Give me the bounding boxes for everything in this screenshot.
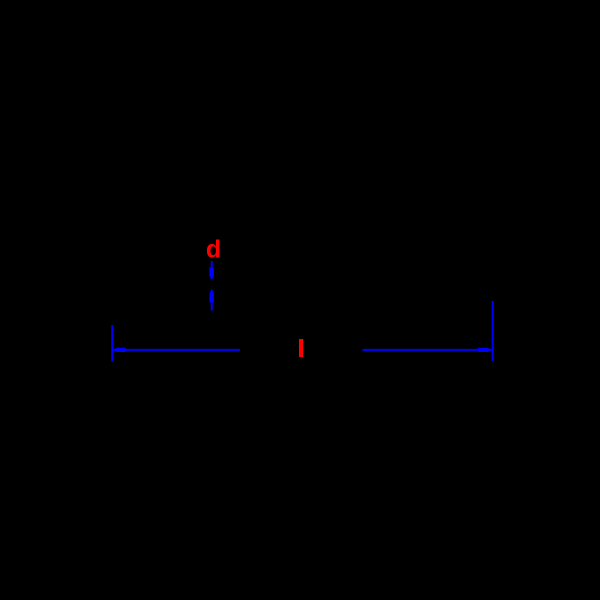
dimension l left segment with left arrowhead	[112, 348, 240, 352]
extension line left	[111, 325, 113, 362]
svg-text:d: d	[206, 236, 221, 264]
dimension d lower arrow	[209, 289, 214, 310]
dimension l right segment with right arrowhead	[363, 348, 493, 352]
label l	[299, 339, 303, 357]
extension line right	[492, 301, 494, 361]
dimension d upper arrow	[209, 261, 214, 280]
